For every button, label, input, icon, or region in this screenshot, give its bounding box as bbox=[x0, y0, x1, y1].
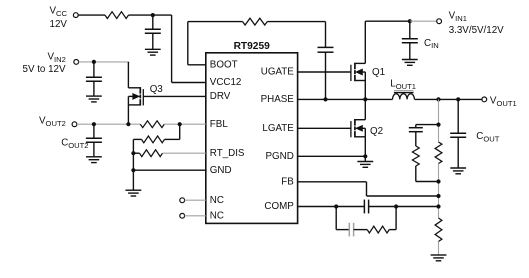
svg-text:BOOT: BOOT bbox=[210, 59, 238, 70]
svg-text:NC: NC bbox=[210, 210, 224, 221]
svg-text:FBL: FBL bbox=[210, 119, 229, 130]
svg-text:LGATE: LGATE bbox=[262, 123, 294, 134]
svg-text:GND: GND bbox=[210, 165, 232, 176]
svg-text:NC: NC bbox=[210, 195, 224, 206]
svg-text:RT9259: RT9259 bbox=[234, 41, 271, 52]
svg-text:5V to 12V: 5V to 12V bbox=[23, 64, 66, 75]
svg-text:Q1: Q1 bbox=[372, 67, 385, 78]
svg-text:UGATE: UGATE bbox=[261, 67, 294, 78]
svg-text:3.3V/5V/12V: 3.3V/5V/12V bbox=[449, 25, 504, 36]
svg-text:PGND: PGND bbox=[265, 151, 293, 162]
svg-text:COMP: COMP bbox=[264, 201, 294, 212]
svg-text:DRV: DRV bbox=[210, 91, 231, 102]
svg-text:PHASE: PHASE bbox=[261, 94, 295, 105]
svg-text:Q2: Q2 bbox=[370, 126, 383, 137]
svg-text:RT_DIS: RT_DIS bbox=[210, 148, 245, 159]
svg-text:Q3: Q3 bbox=[150, 84, 164, 95]
svg-text:12V: 12V bbox=[50, 19, 68, 30]
svg-text:VCC12: VCC12 bbox=[210, 77, 242, 88]
svg-text:FB: FB bbox=[281, 176, 294, 187]
